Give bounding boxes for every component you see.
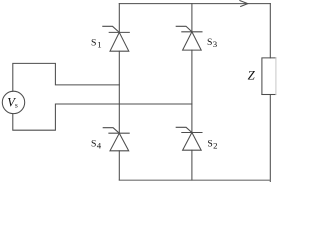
svg-text:Z: Z (248, 69, 256, 83)
svg-text:Vs: Vs (7, 95, 18, 109)
svg-text:S2: S2 (207, 139, 217, 151)
svg-text:S3: S3 (207, 37, 218, 49)
svg-text:S4: S4 (91, 139, 102, 151)
svg-text:S1: S1 (91, 38, 102, 50)
